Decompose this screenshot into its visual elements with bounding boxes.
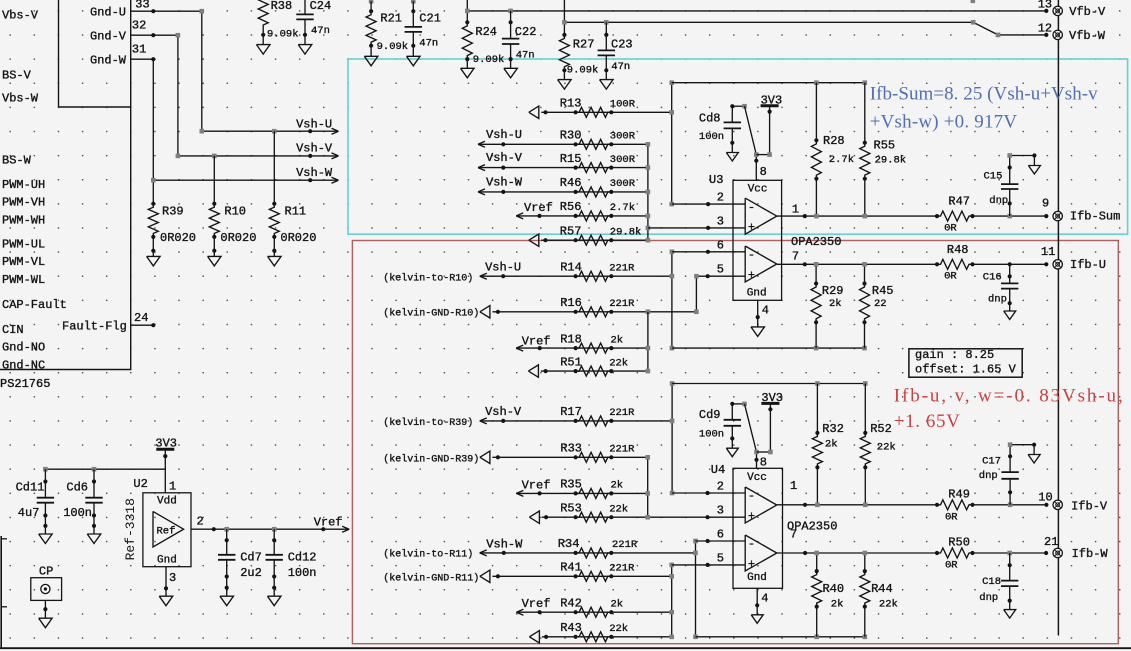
ground below Cd7 <box>226 588 228 597</box>
U3 amp A triangle <box>745 198 777 234</box>
svg-text:3: 3 <box>717 214 724 228</box>
svg-text:dnp: dnp <box>979 470 998 482</box>
svg-text:2k: 2k <box>611 599 624 611</box>
ground below Cd12 <box>273 588 275 597</box>
svg-text:100n: 100n <box>699 429 724 441</box>
svg-text:OPA2350: OPA2350 <box>791 235 841 249</box>
svg-text:Vbs-W: Vbs-W <box>2 91 39 105</box>
svg-text:-: - <box>748 489 755 503</box>
svg-text:221R: 221R <box>609 298 635 310</box>
svg-text:R52: R52 <box>870 422 892 436</box>
svg-text:C15: C15 <box>984 170 1003 182</box>
svg-text:1: 1 <box>792 203 799 217</box>
svg-text:7: 7 <box>792 249 799 263</box>
U4 amp A triangle <box>745 487 777 523</box>
svg-text:R56: R56 <box>560 200 582 214</box>
ground below R24 <box>466 59 468 68</box>
vertical U3 pin6 net <box>671 252 673 348</box>
svg-text:300R: 300R <box>610 131 636 143</box>
svg-text:R30: R30 <box>560 129 582 143</box>
svg-text:32: 32 <box>132 19 146 33</box>
wire U3 output 1 Ifb-Sum <box>777 215 937 217</box>
svg-text:0R: 0R <box>944 271 957 283</box>
net arrow Vref R18 <box>516 345 523 348</box>
wire U3 pin5 <box>696 276 745 312</box>
svg-text:C21: C21 <box>419 12 441 26</box>
svg-text:R43: R43 <box>560 621 582 635</box>
wire to Vfb-V pin 13 <box>466 0 468 22</box>
U4 amp B triangle <box>745 535 777 571</box>
svg-text:PWM-WH: PWM-WH <box>2 213 45 227</box>
IC U? PS21765 outline <box>0 0 131 370</box>
capacitor C16 dnp <box>1009 264 1011 283</box>
net arrow Vsh-U <box>308 129 312 133</box>
svg-text:R38: R38 <box>271 0 293 13</box>
jumper switch at U4 Vcc <box>732 403 744 405</box>
wire decoupling to U2 Vdd <box>45 468 165 470</box>
svg-text:221R: 221R <box>612 539 638 551</box>
svg-text:6: 6 <box>717 238 724 252</box>
svg-text:0R: 0R <box>944 222 957 234</box>
U3 feedback top wire <box>672 82 865 84</box>
svg-text:Vcc: Vcc <box>748 184 768 196</box>
svg-text:Vsh-U: Vsh-U <box>296 118 332 132</box>
svg-text:U3: U3 <box>709 173 723 187</box>
svg-text:dnp: dnp <box>979 592 998 604</box>
ground below R39 <box>152 251 154 257</box>
svg-text:2u2: 2u2 <box>240 566 262 580</box>
svg-text:R21: R21 <box>380 12 402 26</box>
svg-text:0R: 0R <box>945 512 958 524</box>
svg-text:Fault-Flg: Fault-Flg <box>62 319 127 333</box>
gain-offset note box <box>909 349 1022 377</box>
net flag R51 <box>528 365 538 377</box>
svg-text:Vcc: Vcc <box>747 472 767 484</box>
wire Gnd-W to Vsh-W <box>152 59 154 204</box>
capacitor Cd9 100n <box>730 402 734 406</box>
ground below C18 <box>1009 601 1011 610</box>
connector bus line <box>1057 0 1059 636</box>
svg-text:Vref: Vref <box>314 516 343 530</box>
svg-text:22: 22 <box>874 298 887 310</box>
svg-text:21: 21 <box>1044 535 1058 549</box>
capacitor Cd11 4u7 <box>44 469 46 498</box>
svg-text:29.8k: 29.8k <box>610 227 642 239</box>
resistor R24 9.09k <box>465 20 469 24</box>
svg-text:Vsh-W: Vsh-W <box>486 176 523 190</box>
U2 pin 3 Gnd stub <box>165 567 167 589</box>
sheet bottom border <box>0 647 1131 649</box>
capacitor Cd6 100n <box>93 469 95 498</box>
sheet left edge segment <box>0 536 2 648</box>
svg-text:Gnd-V: Gnd-V <box>90 30 127 44</box>
wire U4 pin6 <box>696 540 746 542</box>
resistor R52 22k <box>864 384 866 433</box>
svg-text:gain : 8.25: gain : 8.25 <box>915 348 994 362</box>
resistor R10 0R020 <box>213 156 215 204</box>
svg-text:Ifb-Sum=8. 25 (Vsh-u+Vsh-v: Ifb-Sum=8. 25 (Vsh-u+Vsh-v <box>870 84 1098 105</box>
svg-text:U2: U2 <box>133 477 147 491</box>
svg-text:R51: R51 <box>560 355 582 369</box>
U3 feedback bottom wire <box>672 347 865 349</box>
U4 feedback bottom wire <box>696 636 865 638</box>
svg-text:Ifb-u, v, w=-0. 83Vsh-u, v, w: Ifb-u, v, w=-0. 83Vsh-u, v, w <box>894 386 1131 407</box>
svg-text:R33: R33 <box>560 442 582 456</box>
svg-text:R17: R17 <box>560 405 582 419</box>
resistor R48 0R <box>935 262 939 266</box>
resistor R55 29.8k <box>864 83 866 143</box>
svg-text:5: 5 <box>717 263 724 277</box>
svg-text:Vdd: Vdd <box>157 495 177 507</box>
svg-text:R35: R35 <box>560 478 582 492</box>
svg-text:R50: R50 <box>948 536 970 550</box>
svg-text:Cd11: Cd11 <box>16 480 45 494</box>
wire U4 pin2 <box>672 492 745 494</box>
capacitor Cd12 100n <box>273 529 275 555</box>
U3 pin 4 Gnd stub <box>757 300 759 317</box>
resistor R18 2k <box>574 346 578 350</box>
junction Vsh-U / R11 <box>272 129 277 134</box>
svg-text:5: 5 <box>717 551 724 565</box>
capacitor C22 47n <box>510 11 512 22</box>
svg-text:100R: 100R <box>610 99 636 111</box>
svg-text:R13: R13 <box>560 97 582 111</box>
wire U4 output 7 Ifb-W <box>777 552 937 554</box>
svg-text:R42: R42 <box>560 597 582 611</box>
U3 amp B triangle <box>745 246 777 282</box>
svg-text:2.7k: 2.7k <box>829 154 854 166</box>
svg-text:Vref: Vref <box>522 335 551 349</box>
svg-text:0R020: 0R020 <box>220 231 256 245</box>
svg-text:Cd8: Cd8 <box>699 111 721 125</box>
svg-text:Vsh-W: Vsh-W <box>486 538 523 552</box>
svg-text:R14: R14 <box>560 261 582 275</box>
resistor R47 0R <box>935 214 939 218</box>
ground right of C17 <box>1033 445 1035 455</box>
svg-text:R18: R18 <box>560 332 582 346</box>
net arrow Vref out <box>342 526 349 529</box>
ground right of C15 <box>1033 156 1035 166</box>
resistor R41 221R <box>574 574 578 578</box>
capacitor Cd7 2u2 <box>226 529 228 555</box>
svg-text:+Vsh-w) +0. 917V: +Vsh-w) +0. 917V <box>870 112 1018 133</box>
svg-text:0R020: 0R020 <box>280 231 316 245</box>
svg-text:+: + <box>748 557 755 571</box>
resistor R14 221R <box>574 274 578 278</box>
vertical U3 pin2 net <box>671 83 673 204</box>
svg-text:Vbs-V: Vbs-V <box>2 8 39 22</box>
svg-text:PS21765: PS21765 <box>0 377 50 391</box>
svg-text:(kelvin-GND-R11): (kelvin-GND-R11) <box>383 572 479 584</box>
ground below U4 pin4 <box>756 605 758 615</box>
svg-text:Cd9: Cd9 <box>699 408 721 422</box>
net arrow Vsh-V <box>308 154 312 158</box>
svg-text:100n: 100n <box>288 566 317 580</box>
svg-text:R28: R28 <box>823 134 845 148</box>
svg-text:(kelvin-to-R39): (kelvin-to-R39) <box>383 417 473 429</box>
capacitor C21 47n <box>411 0 416 3</box>
svg-text:47n: 47n <box>611 61 630 73</box>
resistor R33 221R <box>574 455 578 459</box>
svg-text:2k: 2k <box>831 599 844 611</box>
tie vertical U3 pin3 net <box>647 144 649 240</box>
svg-text:+: + <box>748 268 755 282</box>
U2 pin 2 Vref output <box>191 528 348 530</box>
U3 pin 8 Vcc stub <box>755 155 757 181</box>
svg-text:221R: 221R <box>609 263 635 275</box>
svg-text:3: 3 <box>717 504 724 518</box>
svg-text:100n: 100n <box>63 506 92 520</box>
resistor R32 2k <box>816 384 818 433</box>
svg-text:Vfb-W: Vfb-W <box>1069 29 1106 43</box>
svg-text:CIN: CIN <box>2 323 24 337</box>
resistor R53 22k <box>542 516 745 518</box>
svg-text:Gnd: Gnd <box>747 288 767 300</box>
wire U3 pin2 <box>672 203 746 205</box>
svg-text:R27: R27 <box>573 38 595 52</box>
svg-text:47n: 47n <box>516 50 535 62</box>
svg-text:47n: 47n <box>419 37 438 49</box>
svg-text:C24: C24 <box>310 0 332 13</box>
ground below C24 <box>304 35 306 45</box>
svg-text:(kelvin-to-R11): (kelvin-to-R11) <box>383 549 473 561</box>
svg-text:2.7k: 2.7k <box>610 202 635 214</box>
svg-text:22k: 22k <box>879 599 898 611</box>
red highlight box <box>352 241 1118 644</box>
wire Gnd-U to Vsh-U <box>153 11 337 131</box>
svg-text:300R: 300R <box>610 178 636 190</box>
resistor R51 22k <box>574 369 578 373</box>
ground below R27 <box>563 70 565 79</box>
svg-text:Gnd: Gnd <box>157 554 177 566</box>
resistor R16 221R <box>574 310 578 314</box>
svg-text:Vsh-U: Vsh-U <box>485 261 521 275</box>
ground below Cd8 <box>731 143 733 153</box>
svg-text:221R: 221R <box>609 444 635 456</box>
wire U3 pin6 <box>672 251 745 253</box>
svg-text:31: 31 <box>132 43 146 57</box>
svg-text:R45: R45 <box>872 284 894 298</box>
resistor R13 100R row <box>529 106 539 118</box>
svg-text:R48: R48 <box>947 243 969 257</box>
svg-text:R15: R15 <box>560 152 582 166</box>
vertical U4 pin5 net <box>671 565 673 637</box>
svg-text:Gnd-NC: Gnd-NC <box>2 358 45 372</box>
resistor R34 221R <box>574 551 578 555</box>
svg-text:Vfb-V: Vfb-V <box>1069 5 1106 19</box>
U4 pin3 <box>705 515 709 519</box>
junction Vsh-V / R10 <box>212 154 217 159</box>
svg-text:(kelvin-GND-R10): (kelvin-GND-R10) <box>383 308 479 320</box>
svg-text:R47: R47 <box>948 195 970 209</box>
vertical U4 pin6 net <box>695 541 697 637</box>
resistor R49 0R <box>935 503 939 507</box>
svg-text:Ifb-Sum: Ifb-Sum <box>1070 210 1120 224</box>
svg-text:22k: 22k <box>609 504 628 516</box>
svg-text:R49: R49 <box>948 488 970 502</box>
svg-text:Vsh-V: Vsh-V <box>296 142 333 156</box>
resistor R30 300R row <box>478 141 485 144</box>
net arrow Vsh-W <box>308 178 312 182</box>
resistor R50 0R <box>935 551 939 555</box>
svg-text:Ref: Ref <box>157 525 176 537</box>
svg-text:R41: R41 <box>560 561 582 575</box>
svg-text:-: - <box>748 200 755 214</box>
svg-text:4: 4 <box>761 592 768 606</box>
capacitor Cd8 100n <box>730 104 734 108</box>
svg-text:Gnd-W: Gnd-W <box>90 54 127 68</box>
svg-text:Ref-3318: Ref-3318 <box>123 498 138 560</box>
resistor R43 22k <box>574 635 578 639</box>
svg-text:R32: R32 <box>822 422 844 436</box>
svg-text:Gnd: Gnd <box>747 572 767 584</box>
svg-text:CAP-Fault: CAP-Fault <box>2 298 67 312</box>
svg-text:0R: 0R <box>945 560 958 572</box>
resistor R39 0R020 <box>151 202 155 206</box>
svg-text:9.09k: 9.09k <box>567 65 599 77</box>
svg-text:PWM-UH: PWM-UH <box>2 178 45 192</box>
ground below Cd6 <box>93 526 95 534</box>
svg-text:1: 1 <box>790 479 797 493</box>
wire R49 to pin 10 <box>973 504 1047 506</box>
svg-text:R57: R57 <box>560 225 582 239</box>
svg-text:PWM-VL: PWM-VL <box>2 255 45 269</box>
resistor R11 0R020 <box>273 131 275 204</box>
svg-text:BS-V: BS-V <box>2 68 32 82</box>
op-amp U3 OPA2350 body <box>733 180 782 300</box>
svg-text:2k: 2k <box>611 334 624 346</box>
net flag R43 <box>529 631 539 643</box>
svg-text:300R: 300R <box>610 154 636 166</box>
svg-text:R10: R10 <box>224 205 246 219</box>
resistor R29 2k <box>815 264 817 283</box>
tie vertical U4 pin3 net <box>647 457 649 517</box>
svg-text:Vsh-W: Vsh-W <box>296 166 333 180</box>
wire U4 pin5 <box>672 564 746 566</box>
svg-text:4: 4 <box>762 303 769 317</box>
svg-text:29.8k: 29.8k <box>875 155 907 167</box>
ground below R21 <box>370 46 372 57</box>
svg-text:221R: 221R <box>609 563 635 575</box>
svg-text:PWM-UL: PWM-UL <box>2 238 45 252</box>
resistor R57 29.8k row <box>529 234 539 246</box>
resistor R15 300R row <box>478 165 485 168</box>
svg-text:R11: R11 <box>285 205 307 219</box>
svg-text:11: 11 <box>1041 245 1055 259</box>
ground below Cd9 <box>731 439 733 449</box>
svg-text:24: 24 <box>134 311 148 325</box>
svg-text:CP: CP <box>39 565 53 579</box>
svg-text:8: 8 <box>760 455 767 469</box>
svg-text:R55: R55 <box>874 139 896 153</box>
svg-text:0R020: 0R020 <box>160 231 196 245</box>
cyan highlight box <box>348 59 1128 234</box>
svg-text:47n: 47n <box>311 25 330 37</box>
svg-text:C22: C22 <box>515 25 537 39</box>
svg-text:R46: R46 <box>560 176 582 190</box>
svg-text:Ifb-U: Ifb-U <box>1070 258 1106 272</box>
resistor R42 2k <box>574 610 578 614</box>
svg-text:12: 12 <box>1038 21 1052 35</box>
svg-text:9: 9 <box>1042 197 1049 211</box>
svg-text:6: 6 <box>717 528 724 542</box>
wire R48 to pin 11 <box>973 263 1047 265</box>
svg-text:-: - <box>748 537 755 551</box>
svg-text:R29: R29 <box>822 284 844 298</box>
svg-text:C17: C17 <box>982 456 1001 468</box>
svg-text:offset: 1.65 V: offset: 1.65 V <box>915 363 1017 377</box>
svg-text:Ifb-W: Ifb-W <box>1072 547 1109 561</box>
svg-text:-: - <box>748 248 755 262</box>
svg-text:+: + <box>748 509 755 523</box>
svg-text:R24: R24 <box>475 25 497 39</box>
svg-text:dnp: dnp <box>989 195 1008 207</box>
svg-text:C23: C23 <box>611 38 633 52</box>
resistor R45 22 <box>864 264 866 283</box>
net flag R53 <box>529 511 539 523</box>
svg-text:33: 33 <box>135 0 149 11</box>
IC U2 Ref-3318 body <box>143 493 191 567</box>
U4 feedback top wire <box>672 383 865 385</box>
svg-text:C16: C16 <box>983 271 1002 283</box>
svg-text:2k: 2k <box>825 438 838 450</box>
capacitor C17 dnp <box>1009 479 1011 505</box>
svg-text:9.09k: 9.09k <box>377 41 409 53</box>
dangling wire end marker near pin 12 jog <box>971 0 976 3</box>
wire U3 output 7 Ifb-U <box>777 263 937 265</box>
svg-text:Vsh-V: Vsh-V <box>485 405 522 419</box>
svg-text:4u7: 4u7 <box>18 506 40 520</box>
svg-text:+1. 65V: +1. 65V <box>894 411 961 432</box>
svg-text:Vref: Vref <box>524 201 553 215</box>
resistor R21 9.09k <box>369 0 374 3</box>
wire U4 output 1 Ifb-V <box>777 504 937 506</box>
svg-text:10: 10 <box>1038 491 1052 505</box>
svg-text:PWM-WL: PWM-WL <box>2 273 45 287</box>
jumper switch at U3 Vcc <box>732 105 744 107</box>
ground below U3 pin4 <box>757 317 759 327</box>
svg-text:Cd12: Cd12 <box>288 551 317 565</box>
ground below C21 <box>412 46 414 57</box>
U4 pin 4 Gnd stub <box>756 588 758 605</box>
ground below C22 <box>510 59 512 68</box>
svg-text:R44: R44 <box>871 582 893 596</box>
svg-text:2: 2 <box>197 515 204 529</box>
svg-text:22k: 22k <box>609 357 628 369</box>
svg-text:Cd6: Cd6 <box>66 480 88 494</box>
svg-text:BS-W: BS-W <box>2 154 32 168</box>
net arrow Vref R35 <box>516 490 523 493</box>
wire R50 to pin 21 <box>973 552 1047 554</box>
resistor R46 300R row <box>478 189 485 192</box>
svg-text:2: 2 <box>717 191 724 205</box>
svg-text:Cd7: Cd7 <box>240 551 262 565</box>
svg-text:22k: 22k <box>877 442 896 454</box>
svg-text:R40: R40 <box>823 582 845 596</box>
svg-text:dnp: dnp <box>988 294 1007 306</box>
svg-text:R39: R39 <box>162 205 184 219</box>
svg-text:1: 1 <box>169 479 176 493</box>
ground below R10 <box>213 251 215 257</box>
svg-text:2: 2 <box>717 480 724 494</box>
resistor R28 2.7k <box>815 83 817 141</box>
wire Gnd-V to Vsh-V <box>153 35 337 156</box>
svg-text:100n: 100n <box>699 131 724 143</box>
svg-text:U4: U4 <box>711 463 725 477</box>
resistor R56 2.7k row <box>516 213 523 216</box>
ground below C16 <box>1009 303 1011 311</box>
wire to Vfb-W pin 12 <box>563 0 565 35</box>
